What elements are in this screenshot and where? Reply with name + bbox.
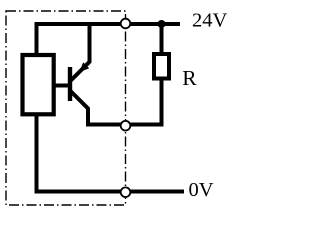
emitter arrow (points into base bar: PNP) (79, 62, 89, 72)
terminal: 0V (121, 187, 131, 197)
collector lead (to output) (71, 91, 126, 125)
terminal: 24V (121, 19, 131, 29)
wire: base lead from sensor body to transistor (54, 84, 69, 88)
terminal: output (121, 121, 131, 131)
wire: output circle to resistor bottom (126, 80, 162, 125)
junction dot on 24V rail (158, 20, 166, 28)
svg-text:24V: 24V (192, 9, 228, 31)
sensor enclosure (dash-dot box) (6, 11, 126, 205)
wire: +24V rail (top) (37, 24, 181, 55)
svg-text:R: R (182, 66, 197, 90)
wire: 0V rail (bottom) with lead from sensor body (37, 114, 185, 192)
wire: resistor top lead (160, 24, 164, 54)
resistor R (154, 54, 169, 79)
emitter lead (to 24V rail) (71, 24, 90, 81)
base bar (68, 67, 72, 101)
svg-text:0V: 0V (189, 179, 214, 201)
transistor Q1 (PNP) (70, 24, 126, 125)
sensor body (rectangle) (23, 55, 54, 114)
